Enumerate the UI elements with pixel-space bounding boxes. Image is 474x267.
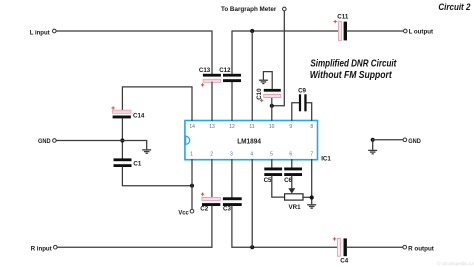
- svg-text:Circuit 2: Circuit 2: [438, 2, 470, 12]
- pin numbers top row 14 13 12 11 10 9 8: [189, 124, 313, 130]
- wire IC pin 12 to C12: [231, 82, 233, 120]
- svg-text:10: 10: [269, 124, 275, 130]
- junction pin 7 / VR1: [310, 195, 314, 199]
- wire IC pin 9 to C9: [292, 103, 299, 121]
- svg-text:4: 4: [250, 152, 253, 158]
- junction GND right: [371, 138, 375, 142]
- svg-text:5: 5: [270, 152, 273, 158]
- junction pin 11 / L output net: [250, 29, 254, 33]
- wire pin10 node to IC pin 10: [271, 106, 273, 121]
- terminal GND right: [403, 138, 407, 142]
- C11 plus sign: [334, 20, 337, 23]
- wire C2 bottom to R input wire: [211, 206, 213, 247]
- capacitor C10 (electrolytic): [264, 89, 281, 98]
- svg-text:6: 6: [289, 152, 292, 158]
- wire IC pin 2 to C2: [211, 160, 213, 198]
- capacitor C11 (electrolytic, vertical plates): [338, 22, 347, 41]
- capacitor C13: [203, 74, 221, 83]
- svg-text:9: 9: [289, 124, 292, 130]
- wire C5 bottom to VR1 left: [272, 176, 285, 197]
- terminal To Bargraph Meter: [283, 7, 287, 11]
- svg-text:13: 13: [209, 124, 215, 130]
- wire GND right node down to ground: [372, 140, 374, 150]
- svg-text:Simplified DNR Circuit: Simplified DNR Circuit: [310, 58, 396, 69]
- wire C6 bottom to VR1 wiper arrow: [291, 176, 293, 189]
- capacitor C2 (electrolytic): [202, 197, 220, 206]
- C10 plus sign: [260, 99, 263, 102]
- svg-text:C9: C9: [298, 88, 306, 95]
- svg-text:2: 2: [210, 152, 213, 158]
- wire R input to C2 drop: [57, 246, 212, 248]
- wire IC pin 5 to C5: [271, 160, 273, 168]
- C4 plus sign: [333, 237, 336, 240]
- svg-text:L output: L output: [409, 29, 433, 36]
- wire IC pin 1 to Vcc: [191, 160, 193, 210]
- svg-text:© circuitspedia.com: © circuitspedia.com: [437, 260, 474, 266]
- op IC1 LM1894 body: [185, 121, 318, 160]
- svg-text:C1: C1: [133, 161, 141, 168]
- capacitor C3: [223, 197, 242, 206]
- ground below pin 7: [307, 205, 316, 208]
- wire C12 up to L output net: [232, 31, 339, 74]
- wire IC pin 6 to C6: [291, 160, 293, 168]
- wire IC pin 3 to C3: [231, 160, 233, 198]
- C13 plus sign: [201, 83, 204, 86]
- svg-text:12: 12: [229, 124, 235, 130]
- capacitor C12: [223, 74, 241, 82]
- capacitor C14 (electrolytic): [113, 110, 131, 118]
- svg-text:C4: C4: [340, 258, 348, 265]
- wire GND right node to terminal: [373, 139, 403, 141]
- capacitor C5: [264, 168, 282, 177]
- svg-text:LM1894: LM1894: [237, 138, 261, 145]
- potentiometer VR1 body: [285, 194, 303, 200]
- ground above C10: [259, 80, 268, 83]
- svg-text:GND: GND: [408, 138, 421, 145]
- wire GND left to ground symbol: [57, 141, 147, 150]
- junction pin10 / C10 / bargraph: [270, 104, 274, 108]
- C14 plus sign: [111, 106, 114, 109]
- svg-text:1: 1: [190, 152, 193, 158]
- svg-text:To Bargraph Meter: To Bargraph Meter: [221, 6, 277, 13]
- wire C1 bottom to pin1 net: [122, 167, 192, 186]
- svg-text:C10: C10: [256, 88, 263, 100]
- wire pin10 node up to C10: [271, 98, 273, 106]
- svg-text:14: 14: [189, 124, 195, 130]
- junction pin1 / C1: [190, 184, 194, 188]
- C2 plus sign: [201, 193, 204, 196]
- ground right: [368, 150, 377, 153]
- wire C13 to IC pin 13: [211, 82, 213, 120]
- wire IC pin 4 down to R output net: [251, 160, 253, 248]
- wire IC pin 11 up to L output net: [251, 31, 253, 120]
- terminal R output: [403, 245, 407, 249]
- pin numbers bottom row 1 2 3 4 5 6 7: [190, 152, 313, 158]
- wire C11 to L output terminal: [347, 30, 403, 32]
- svg-text:C14: C14: [133, 113, 145, 120]
- capacitor C1: [114, 158, 132, 167]
- wire L input to C13 drop: [56, 31, 212, 74]
- wire VR1 right to pin 7 net: [303, 196, 312, 198]
- VR1 wiper arrowhead: [288, 188, 295, 193]
- svg-text:VR1: VR1: [289, 204, 302, 211]
- terminal L output: [404, 29, 408, 33]
- svg-text:Without FM Support: Without FM Support: [310, 70, 392, 81]
- svg-text:Vcc: Vcc: [178, 209, 189, 216]
- wire bargraph terminal down to pin10 node: [272, 11, 285, 106]
- wire C3 bottom to R output net: [232, 206, 339, 247]
- capacitor C6: [284, 168, 302, 177]
- svg-text:IC1: IC1: [321, 156, 331, 163]
- svg-text:3: 3: [230, 152, 233, 158]
- svg-text:L input: L input: [30, 29, 50, 36]
- wire IC pin 8 to C9: [307, 103, 312, 121]
- wire C14 top to IC pin 14: [122, 87, 192, 120]
- wire C4 to R output terminal: [347, 246, 403, 248]
- wire IC pin 7 down to ground: [311, 160, 313, 205]
- wire C10 top to ground: [263, 72, 272, 89]
- capacitor C4 (electrolytic, vertical plates): [337, 238, 347, 256]
- svg-text:C13: C13: [199, 67, 211, 74]
- junction GND wire / C14-C1: [120, 138, 124, 142]
- svg-text:C2: C2: [200, 206, 208, 213]
- svg-text:R input: R input: [31, 245, 52, 252]
- svg-text:C12: C12: [219, 67, 231, 74]
- capacitor C9 (vertical plates): [299, 94, 307, 111]
- wire C14 bottom to C1 top: [121, 118, 123, 158]
- junction pin 4 / R output net: [250, 245, 254, 249]
- ground left: [142, 150, 151, 153]
- svg-text:7: 7: [310, 152, 313, 158]
- svg-text:C11: C11: [337, 14, 349, 21]
- svg-text:C5: C5: [264, 177, 272, 184]
- svg-text:11: 11: [249, 124, 254, 130]
- svg-text:C3: C3: [223, 206, 231, 213]
- svg-text:GND: GND: [38, 138, 51, 145]
- svg-text:R output: R output: [408, 246, 434, 253]
- svg-text:8: 8: [310, 124, 313, 130]
